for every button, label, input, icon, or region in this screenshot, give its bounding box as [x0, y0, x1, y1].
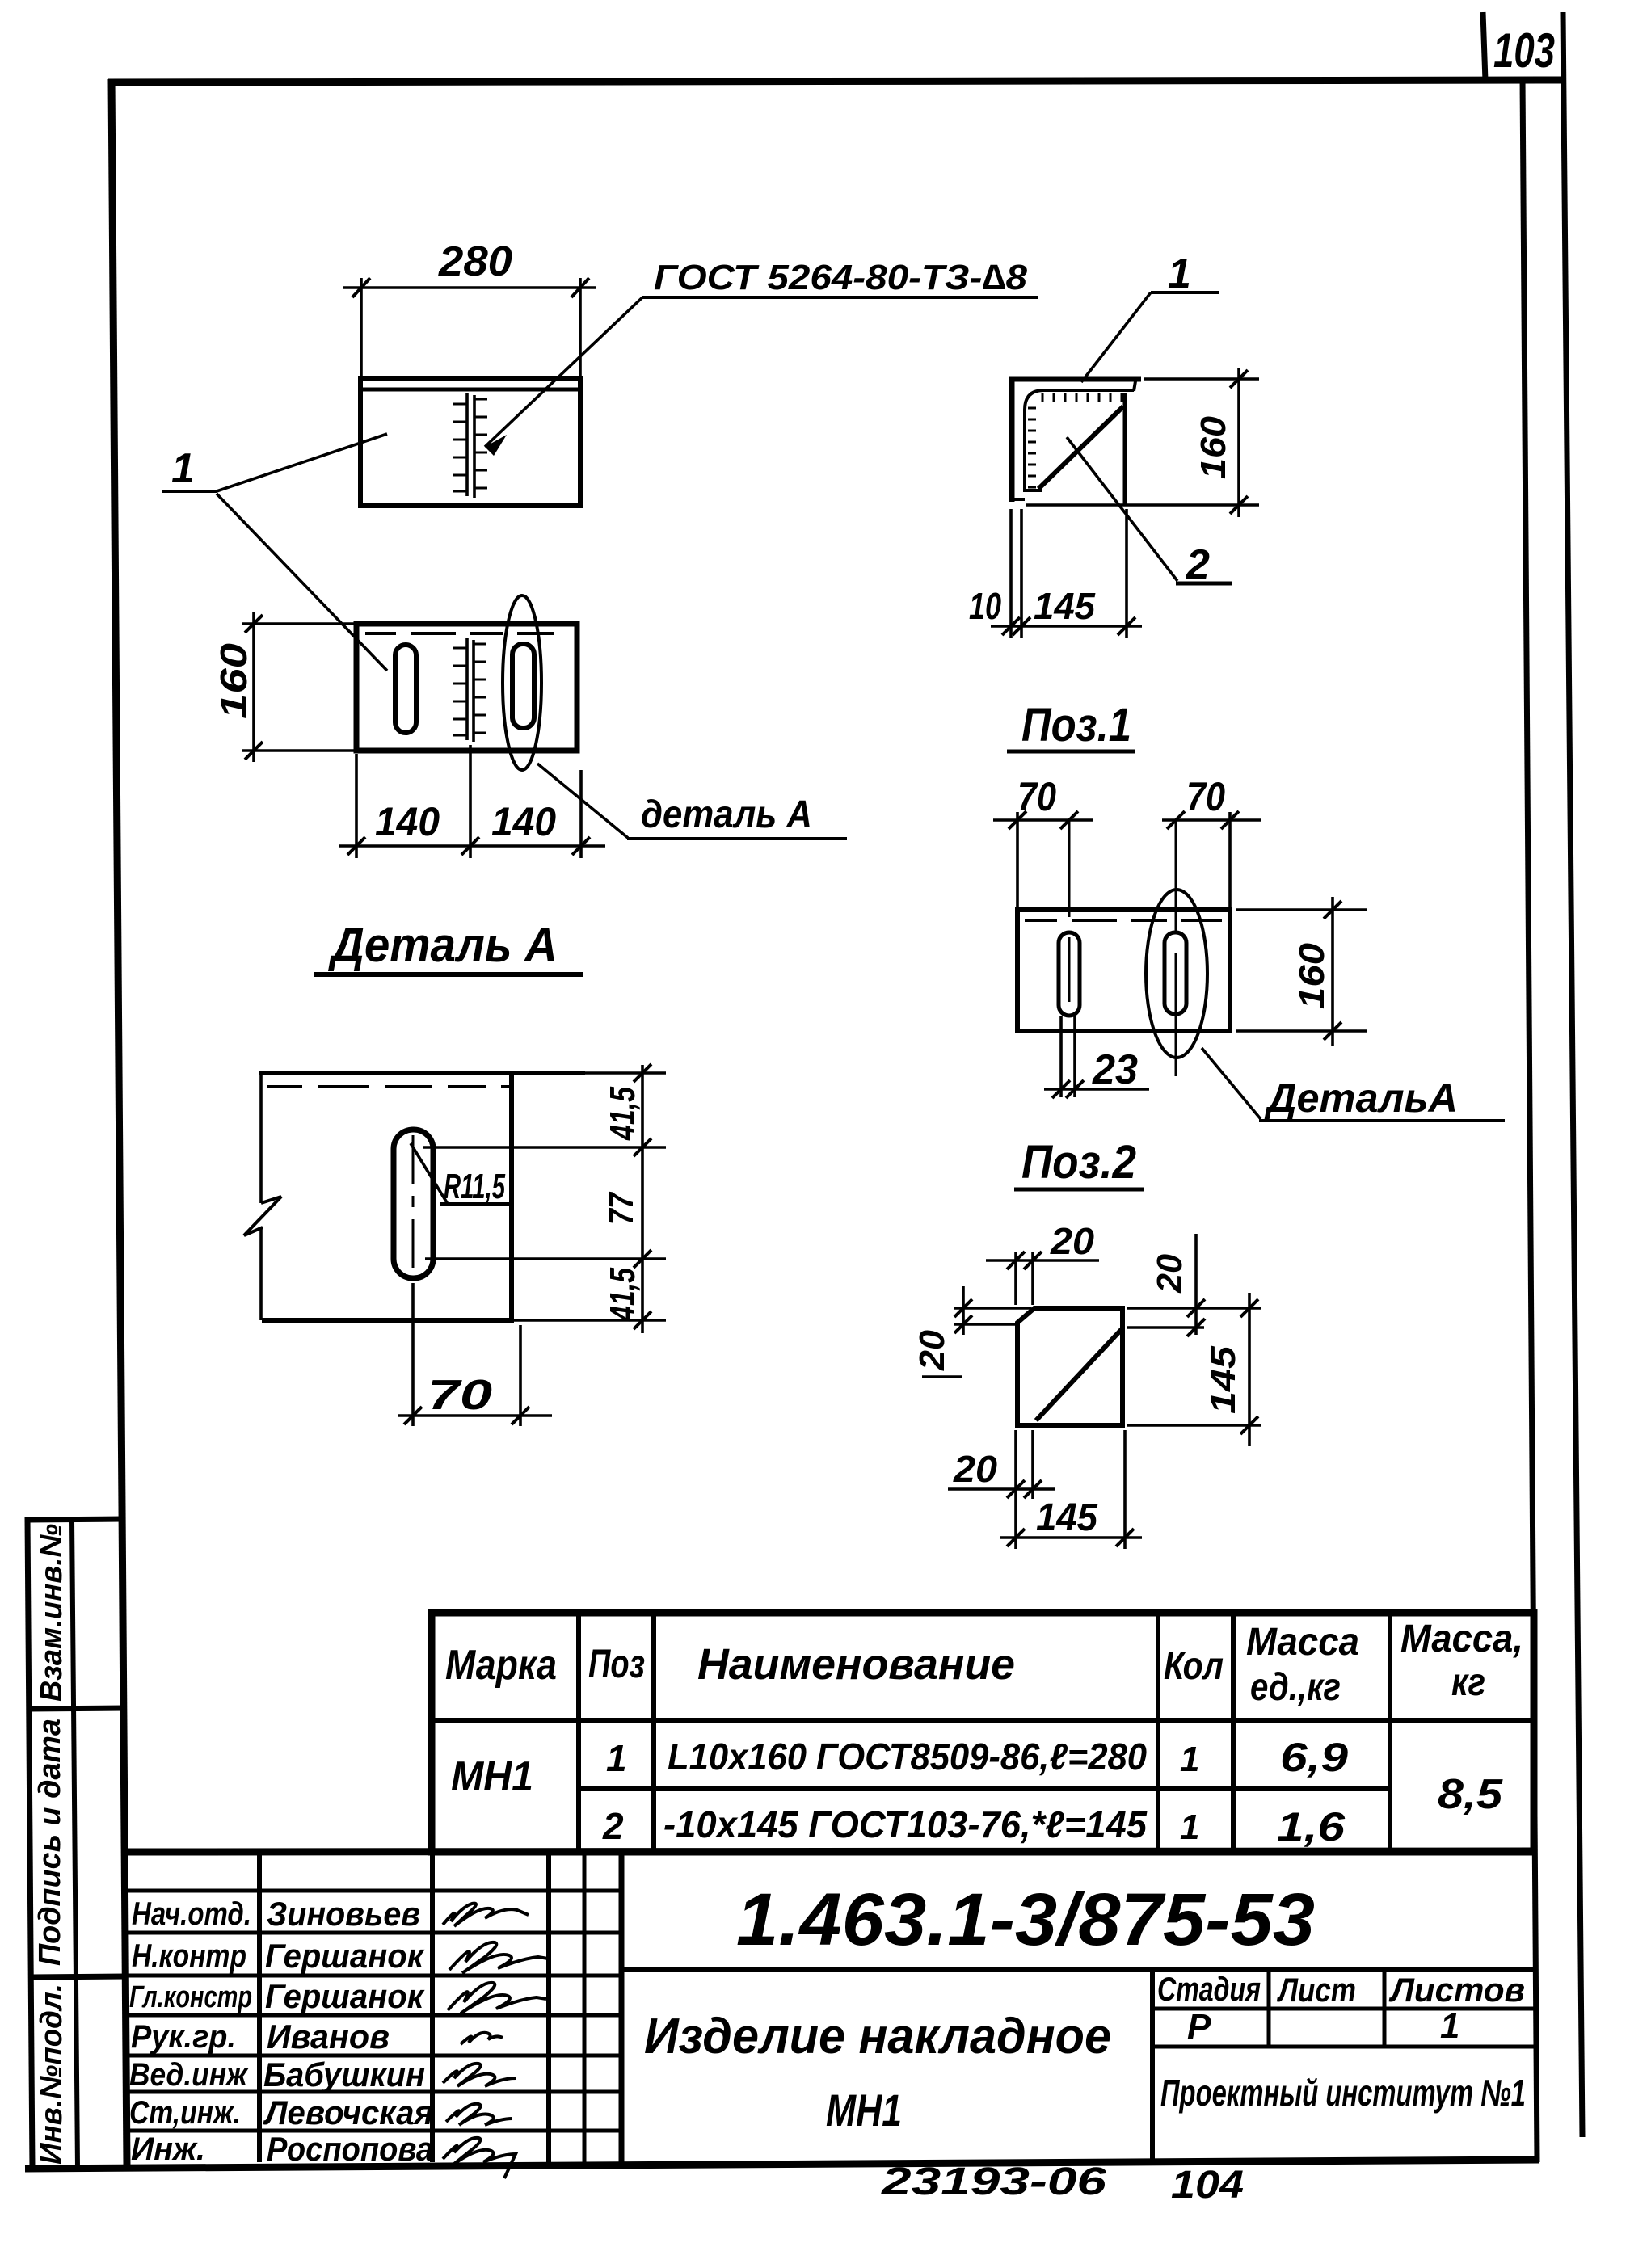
pos2 dim 20 bottom extensions [1014, 1430, 1017, 1499]
svg-text:20: 20 [912, 1329, 952, 1371]
svg-text:Нач.отд.: Нач.отд. [132, 1896, 251, 1932]
svg-text:20: 20 [953, 1448, 997, 1490]
pos2 dim 145 right extensions [1127, 1307, 1261, 1310]
pos2 bevel diagonal [1036, 1329, 1122, 1420]
pos2 dim 145 bottom ticks [1007, 1529, 1025, 1546]
pos1 right slot [1165, 932, 1186, 1014]
frame bottom border [25, 2160, 1539, 2169]
label R11,5 underline [440, 1202, 509, 1206]
dim 280 tick left [352, 278, 370, 297]
svg-text:МН1: МН1 [826, 2085, 902, 2135]
dim 160 extension lines [242, 622, 356, 625]
pos1 dim 160 ticks [1324, 901, 1341, 919]
dim 140 140 line [339, 844, 605, 848]
pos2 plate outline with chamfer [1017, 1308, 1122, 1425]
dim 70 ticks [404, 1407, 422, 1424]
spec col divider Марка [576, 1613, 581, 1852]
dim 160 ticks [245, 615, 263, 633]
angle vertical leg outer edge [1009, 377, 1015, 502]
pos2 dim 20 left ticks [954, 1299, 972, 1317]
стадия verticals [1267, 1970, 1271, 2047]
svg-text:Деталь А: Деталь А [327, 918, 558, 972]
svg-text:Масса,: Масса, [1400, 1618, 1523, 1660]
svg-text:деталь А: деталь А [641, 793, 812, 836]
G_VIEW2 [213, 595, 847, 858]
dim 70 extension (slot center) [411, 1283, 415, 1426]
svg-text:Зиновьев: Зиновьев [267, 1895, 420, 1933]
svg-text:104: 104 [1171, 2164, 1244, 2207]
svg-text:2: 2 [1186, 541, 1210, 588]
view2 plate outline [356, 624, 577, 751]
doc number cell bottom [621, 1967, 1535, 1972]
svg-text:Наименование: Наименование [697, 1640, 1015, 1689]
pos1 dim 70 left extension [1016, 812, 1019, 910]
pos2 dim 145 right line [1248, 1293, 1251, 1446]
break line upper [259, 1073, 263, 1203]
стадия header bottom [1152, 2007, 1535, 2011]
pos1 dim 160 line [1331, 897, 1334, 1046]
svg-text:Стадия: Стадия [1157, 1970, 1261, 2008]
item 2 underline [1176, 582, 1232, 586]
svg-text:1: 1 [1168, 250, 1191, 297]
spec table outer box [432, 1613, 1534, 1852]
view2 weld seam lines [465, 638, 469, 740]
svg-text:Рук.гр.: Рук.гр. [131, 2019, 236, 2055]
svg-text:Проектный институт №1: Проектный институт №1 [1160, 2072, 1526, 2114]
svg-text:140: 140 [375, 799, 440, 844]
heading underline Поз.2 [1014, 1188, 1144, 1192]
item 1 leader to view1 [217, 434, 387, 491]
title block verticals [257, 1852, 262, 2162]
pos2 dim 20 left shelf [922, 1375, 962, 1378]
right dims ticks [634, 1064, 651, 1082]
strip section line 2 [31, 1976, 126, 1977]
pos1 hidden dashed line [1025, 919, 1222, 922]
svg-text:Марка: Марка [445, 1642, 557, 1689]
weld label underline [642, 296, 1038, 299]
svg-text:Масса: Масса [1246, 1621, 1359, 1664]
svg-text:R11,5: R11,5 [444, 1167, 505, 1206]
svg-text:Листов: Листов [1388, 1971, 1525, 2009]
attachment strip inner divider [72, 1519, 78, 2169]
svg-text:Поз.2: Поз.2 [1021, 1136, 1136, 1189]
svg-text:1: 1 [1180, 1740, 1199, 1779]
pos1 plate outline [1017, 910, 1230, 1031]
page number box divider [1483, 12, 1485, 81]
frame left border [112, 79, 127, 2167]
break zigzag [244, 1197, 281, 1235]
svg-text:Поз: Поз [588, 1641, 645, 1686]
svg-text:103: 103 [1493, 23, 1555, 78]
svg-text:L10x160 ГОСТ8509-86,ℓ=280: L10x160 ГОСТ8509-86,ℓ=280 [668, 1736, 1147, 1778]
view2 weld comb left ticks [453, 648, 467, 735]
dim 160 line [252, 612, 255, 762]
G_CORNER [969, 250, 1259, 638]
pos2 dim 20 right extension [1127, 1326, 1204, 1329]
pos1 dim 23 ticks [1052, 1080, 1070, 1098]
svg-text:1,6: 1,6 [1277, 1804, 1346, 1849]
frame right border [1523, 78, 1537, 2162]
pos1 right slot centerline [1175, 820, 1177, 1076]
pos1 dim 23 line [1044, 1088, 1149, 1091]
view1 weld seam left line [465, 393, 469, 496]
svg-text:1: 1 [1180, 1807, 1199, 1847]
view1 fold edge double line [360, 388, 580, 392]
svg-text:41,5: 41,5 [603, 1087, 642, 1141]
spec col divider Наименование [1156, 1613, 1160, 1852]
title block top line [123, 1851, 1534, 1852]
G_LEFTSTRIP [27, 1517, 126, 2170]
G_POS1 [993, 699, 1505, 1121]
pos2 dim 145 bottom line [1000, 1536, 1142, 1539]
svg-text:Левочская: Левочская [263, 2093, 433, 2131]
pos2 dim 20 top ticks [1007, 1252, 1025, 1269]
svg-text:Подпись и дата: Подпись и дата [33, 1719, 67, 1966]
svg-text:Кол: Кол [1164, 1645, 1224, 1688]
pos1 left slot [1059, 932, 1080, 1016]
item 1 leader (corner) [1081, 292, 1151, 382]
weld label leader arrowhead [485, 435, 507, 456]
detail plate top edge [259, 1071, 585, 1075]
view1 weld comb right ticks [474, 399, 487, 488]
pos2 dim 20 top line [986, 1259, 1099, 1262]
svg-text:20: 20 [1150, 1253, 1190, 1293]
pos2 dim 20 left line [962, 1286, 965, 1335]
detail A circle (ellipse) on view2 [503, 595, 541, 770]
view1 plate outline [360, 378, 580, 506]
dim 140 140 extension lines [355, 754, 358, 858]
view2 weld comb right ticks [474, 644, 486, 733]
svg-text:МН1: МН1 [451, 1753, 533, 1800]
heading underline [314, 972, 583, 977]
svg-text:1: 1 [1440, 2006, 1459, 2046]
svg-text:8,5: 8,5 [1438, 1771, 1503, 1818]
dim 280 tick right [571, 278, 589, 297]
item 1 underline [162, 490, 217, 493]
svg-text:145: 145 [1034, 585, 1096, 627]
svg-text:70: 70 [428, 1372, 492, 1419]
angle vertical leg bottom tip [1009, 498, 1025, 501]
svg-text:10: 10 [969, 585, 1001, 627]
svg-text:Лист: Лист [1277, 1971, 1356, 2009]
svg-text:Гершанок: Гершанок [265, 1977, 425, 2015]
angle horizontal leg outer edge [1009, 377, 1141, 382]
weld label leader [485, 297, 642, 447]
detail plate bottom extension thin [514, 1319, 666, 1322]
view2 left slot [395, 645, 416, 733]
detail A label underline [627, 837, 847, 840]
svg-text:1: 1 [171, 445, 195, 492]
pos1 detail A underline [1259, 1119, 1505, 1122]
pos1 dim 70 left line [993, 818, 1093, 822]
spec col divider Масса ед [1388, 1613, 1392, 1852]
corner dim ticks [1002, 617, 1020, 635]
svg-text:6,9: 6,9 [1280, 1735, 1348, 1780]
view1 weld comb left ticks [453, 404, 467, 491]
pos1 left slot centerline [1068, 820, 1071, 1002]
svg-text:2: 2 [602, 1805, 624, 1847]
right dims line [641, 1065, 644, 1333]
svg-text:145: 145 [1036, 1496, 1098, 1539]
svg-text:Роспопова: Роспопова [267, 2130, 433, 2168]
weld comb right of left edge [1028, 408, 1036, 487]
svg-text:23: 23 [1092, 1046, 1138, 1093]
svg-text:кг: кг [1451, 1661, 1485, 1704]
detail plate top extension thin [585, 1071, 666, 1075]
extension line at slot top arc [423, 1146, 666, 1149]
svg-text:-10x145 ГОСТ103-76,*ℓ=145: -10x145 ГОСТ103-76,*ℓ=145 [663, 1803, 1148, 1845]
view2 hidden edge dashed line [365, 632, 554, 635]
slot centerline [412, 1135, 415, 1268]
svg-text:Р: Р [1187, 2007, 1211, 2047]
svg-text:70: 70 [1186, 774, 1225, 819]
pos1 dim 70 right extension [1228, 812, 1232, 910]
spec col divider Кол [1231, 1613, 1236, 1852]
dim 70 extension (right edge) [519, 1325, 522, 1426]
item 2 leader [1067, 437, 1177, 581]
pos1 detail A leader [1202, 1048, 1261, 1119]
svg-text:Бабушкин: Бабушкин [263, 2056, 425, 2093]
spec col divider Поз [651, 1613, 656, 1852]
svg-text:1: 1 [606, 1737, 627, 1779]
weld comb below top edge [1042, 393, 1122, 402]
svg-text:145: 145 [1203, 1345, 1243, 1414]
pos2 dim 20 bottom line [948, 1487, 1055, 1491]
svg-text:160: 160 [213, 642, 255, 719]
svg-text:ед.,кг: ед.,кг [1250, 1666, 1341, 1709]
spec header bottom line [432, 1718, 1534, 1723]
extension line at slot bottom arc [425, 1257, 666, 1260]
svg-text:23193-06: 23193-06 [881, 2161, 1107, 2203]
svg-text:Поз.1: Поз.1 [1021, 699, 1131, 751]
svg-text:160: 160 [1194, 415, 1233, 479]
G_VIEW1 [162, 238, 1038, 671]
gusset bottom edge [1023, 489, 1042, 492]
svg-text:Инв.№подл.: Инв.№подл. [35, 1984, 69, 2165]
pos2 dim 20 bottom ticks [1007, 1480, 1025, 1498]
detail plate right edge [509, 1073, 514, 1320]
attachment strip outer box [27, 1517, 32, 2170]
heading underline Поз.1 [1007, 750, 1135, 754]
view1 weld seam right line [473, 395, 476, 498]
svg-text:Взам.инв.№: Взам.инв.№ [35, 1524, 69, 1702]
sheet outer right edge [1563, 12, 1582, 2137]
item 1 leader to view2 [217, 494, 387, 671]
detail A label leader [537, 764, 628, 838]
signature squiggles [443, 1904, 529, 1926]
spec row divider [579, 1786, 1390, 1791]
G_TITLEBLOCK [123, 1851, 1535, 2207]
svg-text:Инж.: Инж. [131, 2131, 205, 2167]
svg-text:160: 160 [1292, 942, 1332, 1009]
view2 right slot [512, 644, 534, 728]
svg-text:Н.контр: Н.контр [132, 1938, 246, 1974]
svg-text:1.463.1-3/875-53: 1.463.1-3/875-53 [736, 1879, 1315, 1961]
G_DETAILA [244, 918, 666, 1426]
pos1 dim 160 extensions [1236, 908, 1367, 911]
corner dim 160 line [1237, 368, 1240, 517]
svg-text:ГОСТ 5264-80-ТЗ-∆8: ГОСТ 5264-80-ТЗ-∆8 [654, 258, 1028, 297]
pos2 dim 145 bottom extensions [1014, 1499, 1017, 1549]
svg-text:Ст,инж.: Ст,инж. [129, 2095, 241, 2131]
dim 280 extension lines [360, 278, 363, 376]
gusset right edge [1123, 393, 1127, 504]
pos1 dim 70 left ticks [1009, 811, 1026, 829]
svg-text:Гл.констр: Гл.констр [129, 1980, 252, 2014]
corner dim 160 extensions [1144, 377, 1259, 381]
svg-text:ДетальА: ДетальА [1264, 1075, 1458, 1121]
dim 280 line [343, 286, 596, 289]
break line lower [259, 1227, 263, 1320]
pos2 dim 20 right ticks [1187, 1299, 1205, 1317]
label R11,5 leader [411, 1143, 448, 1204]
angle leg tip right [1134, 377, 1136, 391]
pos1 detail A ellipse [1146, 890, 1207, 1058]
svg-text:20: 20 [1050, 1220, 1094, 1262]
detail slot [394, 1130, 433, 1278]
dim 70 line [398, 1414, 552, 1417]
corner dim 160 ticks [1230, 370, 1248, 388]
стадия values bottom [1152, 2045, 1535, 2049]
vertical between name cell and стадия section [1150, 1970, 1155, 2162]
pos1 dim 70 right line [1162, 818, 1261, 822]
pos1 dim 70 right ticks [1167, 811, 1185, 829]
svg-text:Иванов: Иванов [267, 2018, 390, 2056]
gusset diagonal [1038, 406, 1123, 489]
person row lines [124, 1931, 621, 1935]
frame top border [108, 80, 1563, 82]
angle horizontal leg inner edge [1025, 390, 1134, 492]
svg-text:140: 140 [491, 799, 556, 844]
pos2 dim 20 left extension [954, 1307, 1031, 1310]
pos1 left slot edge extensions [1059, 1016, 1063, 1097]
pos2 dim 20 top extensions [1014, 1252, 1017, 1305]
pos2 dim 145 right ticks [1240, 1299, 1258, 1317]
detail plate bottom edge [262, 1318, 514, 1323]
svg-text:Вед.инж: Вед.инж [129, 2057, 249, 2093]
corner dim 10-145 line [991, 625, 1142, 628]
corner dim 10-145 extensions [1009, 509, 1013, 638]
dim 140 140 ticks [347, 837, 365, 855]
svg-text:Изделие накладное: Изделие накладное [644, 2009, 1111, 2064]
G_SPECTABLE [432, 1613, 1534, 1852]
item 1 underline (corner) [1151, 291, 1219, 294]
svg-text:Гершанок: Гершанок [265, 1937, 425, 1975]
pos2 dim 20 right line [1194, 1234, 1198, 1335]
svg-text:77: 77 [601, 1191, 641, 1225]
G_POS2 [912, 1136, 1261, 1549]
svg-text:280: 280 [438, 238, 512, 285]
strip section line 1 [29, 1708, 124, 1709]
svg-text:70: 70 [1017, 774, 1056, 819]
svg-text:41,5: 41,5 [603, 1268, 642, 1322]
title block spacer row bottom [124, 1889, 621, 1893]
detail hidden dashed line [267, 1085, 512, 1088]
